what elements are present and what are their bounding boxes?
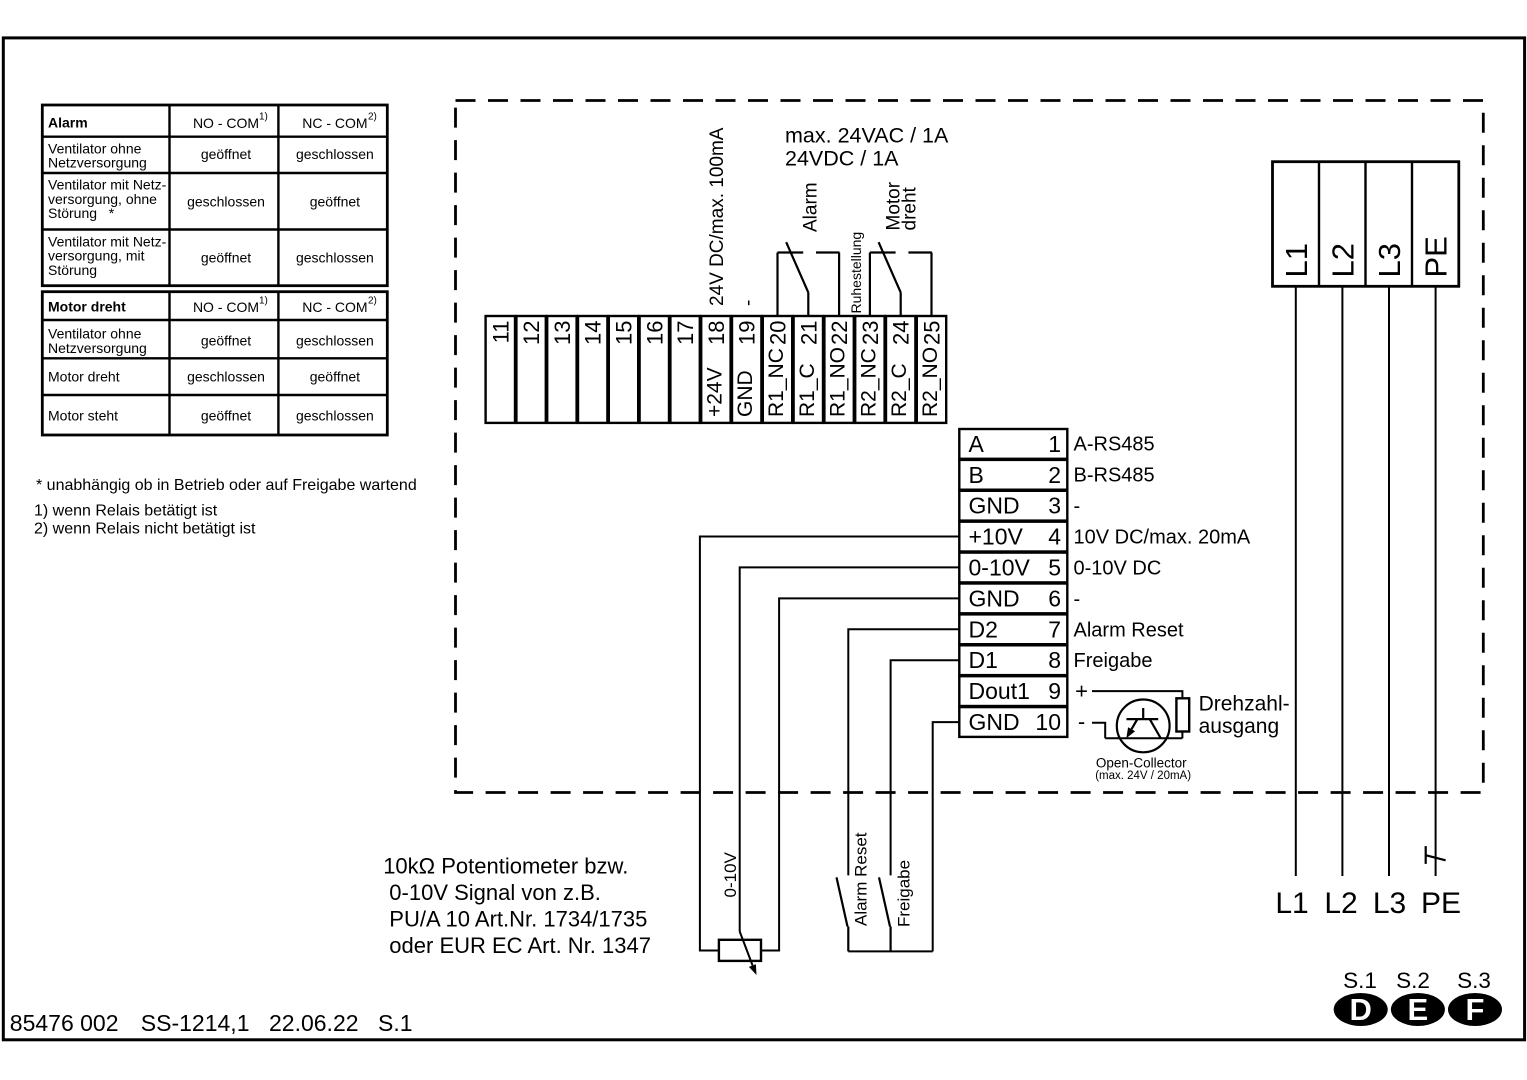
wire: pin 4 (+10V) to potentiometer left (700, 537, 959, 951)
svg-text:geschlossen: geschlossen (187, 369, 265, 385)
sheet labels S.1 S.2 S.3 (1343, 968, 1491, 993)
svg-text:Open-Collector: Open-Collector (1096, 755, 1187, 770)
transistor Q1 (open-collector output, NPN in circle) (1117, 700, 1170, 753)
svg-text:geöffnet: geöffnet (310, 194, 360, 210)
pin annotations for connector X2 (1074, 434, 1251, 673)
svg-text:14: 14 (581, 321, 606, 345)
table: Alarm relay contact states (42, 105, 387, 286)
svg-text:PE: PE (1421, 887, 1461, 920)
svg-text:L2: L2 (1324, 887, 1357, 920)
label: Motor dreht (rotated, two lines) (883, 181, 920, 230)
svg-text:-: - (1078, 709, 1085, 734)
svg-text:S.2: S.2 (1396, 968, 1430, 993)
svg-text:Ruhestellung: Ruhestellung (848, 232, 864, 314)
svg-text:0-10V Signal von z.B.: 0-10V Signal von z.B. (389, 880, 601, 905)
svg-text:0-10V DC: 0-10V DC (1074, 557, 1162, 579)
svg-text:10: 10 (1035, 709, 1061, 735)
svg-text:13: 13 (550, 321, 575, 345)
svg-text:1: 1 (1048, 431, 1061, 457)
svg-text:R1_NO: R1_NO (827, 347, 850, 417)
svg-text:A: A (969, 431, 985, 457)
svg-text:5: 5 (1048, 555, 1061, 581)
footnote: * unabhängig (36, 477, 417, 494)
potentiometer R (10k) (719, 932, 761, 976)
wire: L2 (1341, 286, 1343, 876)
footnote: 2) wenn Relais nicht betätigt ist (34, 520, 256, 537)
table: Motor dreht relay contact states (42, 292, 387, 435)
svg-text:24: 24 (889, 321, 914, 345)
svg-text:NO - COM: NO - COM (193, 115, 259, 131)
svg-text:ausgang: ausgang (1199, 715, 1280, 738)
svg-text:-: - (738, 300, 759, 306)
svg-text:+10V: +10V (969, 524, 1024, 550)
svg-text:geöffnet: geöffnet (201, 250, 251, 266)
svg-text:Alarm: Alarm (48, 115, 88, 131)
svg-text:geschlossen: geschlossen (296, 407, 374, 423)
svg-text:geöffnet: geöffnet (201, 407, 251, 423)
svg-text:18: 18 (704, 321, 729, 345)
svg-text:GND: GND (969, 709, 1020, 735)
label: Alarm (rotated) (800, 182, 821, 232)
svg-text:2): 2) (368, 296, 377, 307)
label: - (GND) (1078, 709, 1085, 734)
label: Alarm Reset (rotated) (851, 832, 870, 926)
label: 24V DC/max. 100mA (rotated, above terminal 18) (707, 127, 728, 306)
svg-text:8: 8 (1048, 647, 1061, 673)
svg-text:11: 11 (488, 321, 513, 344)
connector X2 (pins 1-10, RS485/analog/digital I/O) (959, 429, 1067, 737)
svg-text:Alarm: Alarm (800, 182, 821, 232)
svg-text:geschlossen: geschlossen (187, 194, 265, 210)
svg-text:Drehzahl-: Drehzahl- (1199, 693, 1290, 716)
svg-text:3: 3 (1048, 493, 1061, 519)
svg-text:9: 9 (1048, 678, 1061, 704)
sheet badge D (1334, 992, 1388, 1027)
label: Ruhestellung (rotated) (848, 232, 864, 314)
svg-text:B-RS485: B-RS485 (1074, 465, 1155, 487)
sheet badge E (1391, 992, 1445, 1027)
relay contact R2 (Motor dreht relay, terminals 23-25) (870, 242, 932, 316)
label: - (rotated, above terminal 19) (738, 300, 759, 306)
svg-text:19: 19 (735, 321, 760, 345)
svg-text:23: 23 (858, 321, 883, 345)
labels: L1 L2 L3 PE (rotated, in box) (1279, 236, 1454, 277)
svg-text:PE: PE (1419, 236, 1454, 277)
svg-text:geschlossen: geschlossen (296, 333, 374, 349)
svg-text:Störung: Störung (48, 262, 97, 278)
label: 0-10V (rotated) (721, 851, 740, 897)
svg-text:20: 20 (766, 321, 791, 345)
svg-text:D1: D1 (969, 647, 998, 673)
svg-text:dreht: dreht (899, 186, 920, 230)
svg-text:(max. 24V / 20mA): (max. 24V / 20mA) (1095, 770, 1191, 782)
svg-text:0-10V: 0-10V (969, 555, 1031, 581)
svg-text:PU/A 10 Art.Nr. 1734/1735: PU/A 10 Art.Nr. 1734/1735 (389, 907, 647, 932)
svg-text:R1_C: R1_C (796, 363, 819, 417)
wire: switch common bottom (848, 950, 932, 952)
svg-text:-: - (1074, 588, 1081, 610)
svg-text:2: 2 (1048, 462, 1061, 488)
svg-text:1): 1) (259, 112, 268, 123)
wire: pin 5 (0-10V) to potentiometer wiper (740, 567, 960, 931)
switch: Freigabe (879, 877, 891, 951)
svg-text:geschlossen: geschlossen (296, 146, 374, 162)
svg-text:16: 16 (642, 321, 667, 345)
title block text: drawing number and sheet (10, 1010, 413, 1036)
svg-text:24VDC / 1A: 24VDC / 1A (785, 146, 899, 170)
svg-text:R2_C: R2_C (888, 363, 911, 417)
svg-text:Dout1: Dout1 (969, 678, 1030, 704)
relay contact R1 (Alarm relay, terminals 20-22) (778, 242, 840, 316)
svg-text:12: 12 (519, 321, 544, 345)
svg-text:2): 2) (368, 112, 377, 123)
svg-text:S.3: S.3 (1457, 968, 1491, 993)
switch: Alarm Reset (837, 877, 849, 951)
svg-text:L1: L1 (1279, 243, 1314, 277)
label: Open-Collector (1096, 755, 1187, 770)
resistor (load, Drehzahlausgang) (1176, 698, 1189, 731)
svg-text:L3: L3 (1373, 887, 1406, 920)
wire: GND (-) to transistor emitter rail (1092, 723, 1105, 739)
mains terminal block L1 L2 L3 PE (1273, 162, 1459, 287)
wire: L1 (1295, 286, 1297, 876)
wire: emitter rail bottom (1105, 732, 1182, 739)
terminal strip X1 (terminals 11-25) (486, 316, 947, 423)
note: potentiometer source text (383, 853, 651, 958)
svg-text:Freigabe: Freigabe (1074, 650, 1153, 672)
svg-text:21: 21 (796, 321, 821, 345)
svg-text:22: 22 (827, 321, 852, 345)
svg-text:D: D (1350, 992, 1372, 1027)
svg-text:NO - COM: NO - COM (193, 299, 259, 315)
svg-text:-: - (1074, 496, 1081, 518)
sheet badge F (1448, 992, 1502, 1027)
svg-text:L3: L3 (1372, 243, 1407, 277)
svg-text:B: B (969, 462, 984, 488)
label: Drehzahl-ausgang (1199, 693, 1290, 739)
svg-text:R2_NC: R2_NC (857, 348, 880, 417)
wire: pin 7 (D2) to Alarm Reset switch (848, 629, 959, 875)
svg-text:max. 24VAC / 1A: max. 24VAC / 1A (785, 124, 949, 148)
svg-text:Störung *: Störung * (48, 205, 115, 221)
wire: pin 10 (GND) riser to switch common (933, 722, 960, 951)
transistor emitter arrowhead (1126, 727, 1135, 738)
svg-text:S.1: S.1 (378, 1010, 413, 1036)
label: (max. 24V / 20mA) (1095, 770, 1191, 782)
svg-text:geschlossen: geschlossen (296, 250, 374, 266)
svg-text:GND: GND (969, 493, 1020, 519)
footnote: 1) wenn Relais betätigt ist (34, 503, 218, 520)
svg-text:+: + (1075, 679, 1088, 704)
svg-text:geöffnet: geöffnet (310, 369, 360, 385)
svg-text:* unabhängig ob in Betrieb ode: * unabhängig ob in Betrieb oder auf Frei… (36, 477, 417, 494)
svg-text:Motor dreht: Motor dreht (48, 299, 126, 315)
label: Freigabe (rotated) (895, 860, 914, 927)
svg-text:oder EUR EC Art. Nr. 1347: oder EUR EC Art. Nr. 1347 (389, 933, 651, 958)
svg-text:L1: L1 (1275, 887, 1308, 920)
svg-text:4: 4 (1048, 524, 1061, 550)
svg-text:Alarm Reset: Alarm Reset (1074, 619, 1184, 641)
svg-text:10V DC/max. 20mA: 10V DC/max. 20mA (1074, 527, 1251, 549)
svg-text:geöffnet: geöffnet (201, 333, 251, 349)
svg-text:1) wenn Relais betätigt ist: 1) wenn Relais betätigt ist (34, 503, 218, 520)
svg-text:10kΩ Potentiometer bzw.: 10kΩ Potentiometer bzw. (383, 853, 628, 878)
svg-text:+24V: +24V (703, 367, 726, 417)
PE earth branch mark (1426, 846, 1446, 864)
svg-text:Netzversorgung: Netzversorgung (48, 155, 147, 171)
svg-text:geöffnet: geöffnet (201, 146, 251, 162)
svg-text:Motor steht: Motor steht (48, 407, 118, 423)
svg-text:R1_NC: R1_NC (765, 348, 788, 417)
svg-text:S.1: S.1 (1343, 968, 1377, 993)
svg-text:GND: GND (969, 585, 1020, 611)
wire: pin 8 (D1) to Freigabe switch (891, 660, 960, 875)
svg-text:NC - COM: NC - COM (302, 115, 367, 131)
svg-text:25: 25 (920, 321, 945, 345)
wire: PE (1435, 286, 1437, 876)
svg-text:Alarm Reset: Alarm Reset (851, 832, 870, 926)
svg-text:L2: L2 (1325, 243, 1360, 277)
svg-text:7: 7 (1048, 616, 1061, 642)
label: max. 24VAC / 1A 24VDC / 1A (785, 124, 949, 171)
svg-text:R2_NO: R2_NO (919, 347, 942, 417)
svg-text:1): 1) (259, 296, 268, 307)
svg-text:GND: GND (734, 370, 757, 417)
svg-text:F: F (1466, 992, 1485, 1027)
svg-text:2) wenn Relais nicht betätigt: 2) wenn Relais nicht betätigt ist (34, 520, 256, 537)
dashed controller enclosure outline (456, 101, 1484, 793)
wire: L3 (1388, 286, 1390, 876)
svg-text:85476 002: 85476 002 (10, 1010, 119, 1036)
svg-text:0-10V: 0-10V (721, 851, 740, 897)
svg-text:SS-1214,1: SS-1214,1 (141, 1010, 250, 1036)
svg-text:D2: D2 (969, 616, 998, 642)
label: + (Dout1) (1075, 679, 1088, 704)
svg-text:15: 15 (612, 321, 637, 345)
svg-text:Motor dreht: Motor dreht (48, 369, 120, 385)
labels: L1 L2 L3 PE (bottom) (1275, 887, 1461, 920)
svg-text:Netzversorgung: Netzversorgung (48, 340, 147, 356)
svg-text:22.06.22: 22.06.22 (269, 1010, 359, 1036)
svg-text:Freigabe: Freigabe (895, 860, 914, 927)
wire: pin 6 (GND) to potentiometer right (761, 598, 959, 950)
svg-text:NC - COM: NC - COM (302, 299, 367, 315)
svg-text:E: E (1408, 992, 1429, 1027)
svg-text:6: 6 (1048, 585, 1061, 611)
svg-text:24V DC/max. 100mA: 24V DC/max. 100mA (707, 127, 728, 306)
svg-text:A-RS485: A-RS485 (1074, 434, 1155, 456)
wire: Dout1 (+) to load resistor (1092, 691, 1182, 698)
svg-text:17: 17 (673, 321, 698, 345)
